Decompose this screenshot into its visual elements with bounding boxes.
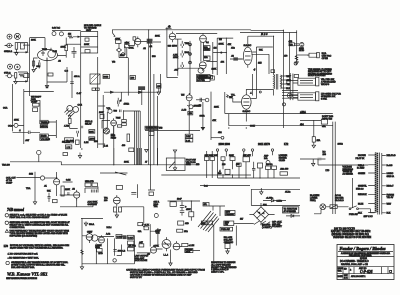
resistor 82K [221,157,225,161]
svg-text:MEG.LTD: MEG.LTD [85,181,94,183]
TO JUNCTION box [283,207,299,213]
wire [286,215,300,217]
label 150 box [48,73,53,76]
wire across [206,53,226,62]
svg-text:COA: COA [3,106,8,109]
diode D3 [271,199,274,202]
svg-text:BROWN: BROWN [358,155,366,157]
svg-text:42D: 42D [185,223,189,225]
fuse line [330,205,337,209]
resistor R3 [15,73,17,78]
resistor 220K [89,130,95,134]
tone bottom wire [178,67,200,69]
trem tube marks [186,93,192,103]
svg-text:SLO-BLO: SLO-BLO [335,200,344,202]
vertical x113.8 [113,126,115,165]
PT core [378,153,380,215]
svg-text:.02: .02 [149,46,153,48]
LDR hatch [65,109,75,118]
pilot circle P1 [52,32,56,36]
terminal 1 [216,149,218,151]
divider3 [337,273,394,275]
svg-text:100K: 100K [155,36,160,38]
input jack J5 ch2 [14,64,20,70]
svg-text:100K: 100K [219,44,225,46]
box CR4MR [65,138,74,143]
trem box x [53,200,58,203]
svg-text:NEW MANUFACTURER NOTATION: NEW MANUFACTURER NOTATION [6,277,37,280]
jack arrow [5,45,13,46]
svg-text:YEL 5V: YEL 5V [387,197,394,199]
svg-text:47KΩ: 47KΩ [124,103,130,105]
svg-text:220K: 220K [65,189,70,191]
svg-text:K72: K72 [284,143,289,146]
tube V5 internal [245,45,251,68]
tube V10b [92,235,98,241]
resistor L2000 [89,137,95,141]
svg-text:.02: .02 [143,48,147,50]
svg-text:AT SPEAKER: AT SPEAKER [284,210,297,213]
rail x134.5 [134,235,136,263]
wire arrow [73,36,80,38]
coupling cap C2 [72,47,77,58]
pilot circle P2 [59,32,63,36]
output transformer OT primary [274,75,275,89]
wire drop x296 [296,30,298,63]
tie [98,106,105,144]
svg-text:220K: 220K [212,68,217,70]
svg-text:GRMA 1: GRMA 1 [4,50,13,53]
resistor R1 68K [15,43,18,50]
wire x67 [66,67,68,82]
wire left rail [81,218,83,264]
svg-text:1500: 1500 [120,55,125,57]
svg-text:CHET: CHET [204,49,210,51]
bias rect top [251,189,300,205]
wire x167 [167,28,178,78]
svg-text:BLK: BLK [387,213,391,215]
reverb unit box [81,32,98,54]
pot bottom [113,259,116,262]
svg-text:WHT: WHT [387,204,392,206]
svg-text:4.5K: 4.5K [173,54,178,56]
wire bottom node [211,137,221,139]
grid V6 wire [229,97,242,103]
small circle node [287,93,292,98]
wire v6 down [246,74,252,122]
wire V1 cathode [34,58,38,66]
tone cap 3 [181,62,184,69]
left bias boxes [205,157,209,161]
svg-text:12A: 12A [204,56,208,59]
stage2 wire x [126,41,128,58]
svg-text:GRN: GRN [186,164,191,166]
svg-text:COMP: COMP [117,237,124,239]
pot bias [266,161,270,165]
wire box down [81,53,98,148]
ground ch2 [14,78,17,84]
wire x107 [102,110,123,138]
resistor bleeder [189,212,194,217]
junction dot b [166,27,167,28]
junction dot g [246,127,247,128]
wire psu row [168,200,201,202]
tube V12 marks [151,245,157,250]
svg-text:470K: 470K [115,38,121,40]
plug P1 tip [317,52,320,57]
diode D4 [291,215,294,218]
svg-text:1.2M: 1.2M [84,142,89,144]
pot hum bal [154,214,158,218]
svg-text:CAUTION: ALL LEADS POSSIBLE OV: CAUTION: ALL LEADS POSSIBLE OVERDRAWN TR… [126,268,205,271]
svg-text:LTD: LTD [326,170,330,172]
svg-text:6.3VAC: 6.3VAC [387,172,394,175]
filter cap 2 [180,211,185,216]
svg-text:W/CAPS: W/CAPS [321,83,330,86]
tube V1 grid marks [41,48,51,62]
transformer box NFL [201,221,207,225]
svg-text:VOLUME: VOLUME [41,139,51,141]
ground nc [312,159,315,166]
wire [190,201,192,221]
ground x296 [295,60,298,65]
ground top [78,153,81,159]
wire stub [121,90,142,105]
pilot X [321,205,325,209]
svg-text:AC METER: AC METER [343,173,354,176]
svg-text:100K: 100K [124,162,129,164]
divider2 [337,266,394,268]
box 1500 [97,249,103,252]
bundle top tie [123,110,140,112]
rails right [102,95,104,148]
PT right line [381,153,383,215]
cells verticals [343,267,388,274]
tube V11 [99,237,105,243]
resistor 1M squiggle [68,36,73,39]
wire [29,38,31,96]
plug P1 body [307,53,317,57]
terminal stubs [218,151,273,156]
svg-text:1 2A: 1 2A [186,139,191,142]
tone mid ticks [189,45,192,62]
svg-text:2000 2000: 2000 2000 [219,143,231,146]
label box V4a [204,46,211,51]
cap 400v [113,250,116,252]
svg-text:L2000: L2000 [89,139,95,141]
pilot lamp [320,204,326,210]
junction dot n [181,200,182,201]
bottom extra wire [117,245,122,256]
svg-text:20,000 OHMS PER VOLT VOLTMETER: 20,000 OHMS PER VOLT VOLTMETER ALL READI… [10,246,63,249]
svg-text:MOLDED CABLE: MOLDED CABLE [84,24,102,27]
input jack J4 ch2 [8,64,13,69]
OT tap wires [282,91,298,99]
label box V4b [204,56,211,60]
wire nc [300,158,326,160]
node circle ot [259,91,261,93]
fuse F1 [330,205,337,209]
ground [15,49,18,55]
comps below V9 [114,207,117,212]
svg-text:100K: 100K [31,40,36,42]
resistor box mid [177,229,183,232]
tall resistor [127,134,130,142]
ground v13 [169,250,172,266]
note item3 marker [6,261,9,264]
svg-text:APR 1964 SHT 1: APR 1964 SHT 1 [351,275,365,278]
note item1 marker [5,221,8,224]
svg-text:PSW: PSW [186,136,191,138]
svg-text:.047: .047 [174,69,179,71]
trem stage tube [186,95,192,101]
opto hatch [104,128,109,134]
node circle b [221,136,224,139]
svg-text:15A: 15A [317,139,321,142]
primary box upper [225,211,235,216]
ground mid2 [173,150,176,153]
logo rule [338,250,393,252]
svg-text:BLK: BLK [358,212,362,214]
trem extra wire [60,198,93,207]
screen rail x269 [252,54,270,74]
terminal 4 [251,149,253,151]
svg-text:+ NO RESISTORS ½ WATT 10%.: + NO RESISTORS ½ WATT 10%. [8,256,40,260]
terminal 2 [225,149,227,151]
svg-text:330K: 330K [250,126,255,128]
vol pot ch1 [108,109,112,113]
wire into plug3 [290,95,298,98]
filter cap 1 [180,202,185,210]
svg-text:SUPPLYING (OR MODIFIED): SUPPLYING (OR MODIFIED) [10,235,38,237]
elec cap plus [117,98,119,107]
wire stage2 vertical [127,58,129,96]
resistor in box 2 [85,50,90,53]
svg-text:JACK CLOSE: JACK CLOSE [135,259,148,262]
tube V2b [111,120,117,126]
svg-text:TRE: TRE [185,43,190,45]
cathode box lines [224,92,226,114]
svg-text:GTR 2: GTR 2 [4,73,11,75]
box VIB [103,75,110,79]
svg-text:Fender / Rogers / Rhodes: Fender / Rogers / Rhodes [340,246,386,251]
svg-text:TRA: TRA [26,187,31,190]
ground trem [33,202,36,205]
svg-text:1M: 1M [214,48,217,50]
trem cap x [48,193,51,202]
resistor ballast [225,244,230,249]
svg-text:BLUE: BLUE [358,203,364,205]
svg-text:130Ω: 130Ω [338,142,344,145]
primary box [224,221,234,226]
svg-text:10M: 10M [29,174,33,176]
jack J3 cross [8,44,10,46]
ground V1k [32,66,37,72]
svg-text:PILOT 6X: PILOT 6X [356,158,365,160]
svg-text:.02: .02 [58,60,62,62]
wire V3 out [175,38,182,40]
vertical x211 [210,92,212,140]
wire trem row [16,177,40,179]
wire top tie [81,218,103,220]
cap box C4 [133,37,136,40]
wire [153,41,161,43]
junction dot e [283,30,284,31]
SECTION: top buses [62,28,332,195]
rail x81.9 [81,148,83,150]
diode arrow 2 [138,90,144,94]
svg-text:L.L.4: L.L.4 [164,254,169,256]
SECTION: preamp top [30,24,234,148]
wire y130 [145,129,200,131]
circle marks [289,94,291,96]
vertical nfb [202,102,204,127]
SECTION: notes [4,221,71,280]
bundle vertical 3 [137,111,139,165]
plug P2 tip [316,77,319,86]
svg-text:600R: 600R [200,115,205,117]
wire plate V5 [248,36,273,45]
SECTION: tremolo [2,148,251,221]
tube V8 marks [74,190,80,201]
SECTION: top-left inputs [4,33,30,131]
bridge diodes X [257,211,266,219]
wire diode row [263,200,286,202]
wire switch feed [352,178,354,208]
box A-MAX [122,120,127,123]
wire lamp fuse [326,206,349,208]
wire to PT [314,209,375,214]
tone cap 1 [181,41,184,48]
capacitor Ck [39,60,41,69]
vertical x153.9 [153,74,155,165]
tone stack top wire [176,32,217,34]
vertical x96 [95,244,97,264]
svg-text:.02: .02 [147,254,151,256]
box top mid [129,148,134,152]
wire OT top [273,36,275,95]
svg-text:47Ω: 47Ω [231,47,235,50]
ground x143 [142,221,145,227]
box 1M [66,145,72,149]
squiggle on rail [81,250,83,255]
vertical x107 [107,238,109,263]
switch SW1 [349,208,351,210]
svg-text:.01: .01 [44,185,48,187]
left bias wires [207,151,213,178]
wire heater circles [52,30,81,32]
squiggle resistor [295,56,298,61]
svg-text:4: 4 [254,68,256,72]
ground top arrow [84,222,87,226]
small box LTD2 [96,88,99,90]
svg-text:.1: .1 [19,130,22,132]
bridge diode marks [258,212,264,214]
OT taps [282,76,287,88]
junction dot j [157,164,158,165]
svg-text:100K: 100K [61,47,67,49]
box on y130 [149,132,154,136]
svg-text:16/16T 4 CPL: 16/16T 4 CPL [211,272,225,274]
B+ bus wire [112,29,283,32]
trem tube B [73,107,79,113]
box mid b [144,227,148,230]
svg-text:470K: 470K [154,246,159,248]
opto blob [104,128,110,134]
tube V9 [113,197,120,204]
tube V9 marks [114,195,120,206]
comp box [116,235,122,239]
stage2 box x [125,45,130,48]
box trem a [76,140,80,144]
svg-text:1K5: 1K5 [258,62,262,64]
svg-text:117: 117 [240,218,244,220]
tube V3 pins [170,32,176,43]
svg-text:220K: 220K [89,131,94,133]
tube V2 [135,39,141,45]
svg-text:BAS: BAS [185,51,190,54]
cap nfb [200,98,201,102]
tube V3 [169,33,175,39]
screen V6 [251,74,256,99]
svg-text:DIAL AND SELECT BAR.: DIAL AND SELECT BAR. [11,266,35,269]
ground bias [260,188,263,195]
switch pole [351,206,357,209]
power tube V5 [243,47,252,65]
svg-text:725: 725 [181,94,185,96]
terminal 3 [243,149,245,151]
bottom cells [343,274,349,280]
svg-text:1 M: 1 M [67,147,71,149]
tube stub top [37,150,41,154]
svg-text:4B2: 4B2 [218,132,222,134]
wire tubes row [82,235,114,238]
wire feed pair [290,73,293,100]
SECTION: transformer strip [300,152,396,239]
svg-text:BASS: BASS [41,134,47,137]
pedal switch [169,162,175,169]
cap C6 dark [233,57,238,60]
plug P3 inner [300,95,313,98]
svg-text:TRA: TRA [154,205,159,208]
tube V2 pins [135,37,141,48]
resistor R4 [19,74,24,77]
wire lower bus left [10,162,123,165]
wire pot [13,124,24,126]
wire grid V1 [30,38,45,51]
wire ch2 bus [24,89,54,144]
wire osc net [57,172,74,196]
svg-text:450V: 450V [186,209,191,211]
svg-text:.1: .1 [250,92,253,94]
svg-text:CHE7: CHE7 [87,231,93,233]
box top right [178,221,184,225]
PT taps right [382,156,386,213]
svg-text:CAUTION IN SERIES W/ SERVICE E: CAUTION IN SERIES W/ SERVICE EXTREME CAR… [130,274,192,277]
svg-text:470: 470 [284,55,288,57]
box TRIM [122,123,127,126]
svg-text:3.3M: 3.3M [66,179,71,181]
svg-text:464: 464 [221,62,225,64]
terminal 5 [271,149,273,151]
presence label box [197,75,211,82]
svg-text:REVERB, DUAL AMP + CH: REVERB, DUAL AMP + CH [341,263,368,266]
SECTION: power supply [154,200,283,273]
svg-text:0.1: 0.1 [206,42,210,44]
wire stage2 [112,30,114,33]
svg-text:DC-CHASSIS - TREMOLO: DC-CHASSIS - TREMOLO [340,260,369,263]
wire j [23,44,30,46]
